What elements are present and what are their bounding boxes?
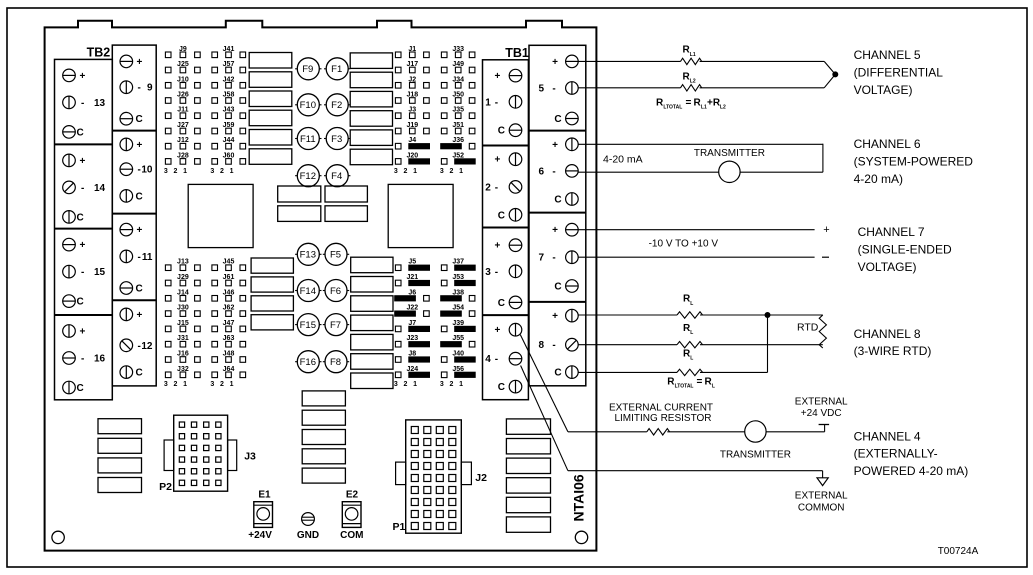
terminal E1 body (254, 502, 273, 528)
mounting hole bottom-left (52, 531, 64, 543)
svg-text:14: 14 (94, 183, 106, 194)
svg-text:+24V: +24V (248, 530, 272, 541)
bottom-left fuse holder pad 3 (251, 296, 293, 311)
svg-text:EXTERNAL: EXTERNAL (795, 397, 848, 408)
svg-text:F16: F16 (300, 357, 316, 368)
svg-text:-: - (552, 253, 555, 264)
svg-text:-: - (81, 267, 84, 278)
svg-text:F13: F13 (300, 250, 316, 261)
TB2 outer column divider 2 (55, 228, 113, 230)
svg-text:CHANNEL 6: CHANNEL 6 (854, 137, 921, 151)
svg-text:2: 2 (449, 168, 453, 175)
fuse F16 (295, 361, 297, 363)
svg-text:COMMON: COMMON (798, 502, 845, 513)
bottom-left pad 2 (98, 438, 142, 453)
svg-text:+: + (494, 155, 500, 166)
TB2 terminal 9 - screw and number (120, 81, 133, 94)
channel 7 - wire (578, 256, 814, 258)
svg-text:C: C (498, 382, 505, 393)
svg-text:4: 4 (485, 354, 491, 365)
top-right fuse holder pad 2 (350, 72, 392, 88)
connector P1/J2 left ear (396, 462, 406, 485)
svg-text:1: 1 (413, 381, 417, 388)
svg-text:COM: COM (340, 530, 363, 541)
terminal block TB1 right column outline (529, 45, 586, 386)
channel 7 - sign (822, 256, 829, 258)
svg-text:VOLTAGE): VOLTAGE) (858, 260, 917, 274)
svg-text:10: 10 (141, 165, 153, 176)
svg-text:4-20 mA: 4-20 mA (603, 153, 643, 165)
TB2 terminal 16 C screw (63, 381, 76, 394)
bottom-left fuse holder pad 2 (251, 277, 293, 292)
board outline NTAI06 with top tabs (45, 21, 597, 551)
top-right fuse holder pad 6 (350, 149, 392, 165)
svg-text:-: - (138, 165, 141, 176)
TB2 terminal 14 - screw and number (63, 181, 76, 194)
svg-text:F5: F5 (330, 250, 341, 261)
svg-text:F14: F14 (300, 286, 316, 297)
fuse F15 (295, 324, 297, 326)
TB1 left column divider 2 (483, 227, 529, 229)
fuse F1 (324, 68, 326, 70)
bottom-left pad 3 (98, 458, 142, 473)
top-right fuse holder pad 5 (350, 130, 392, 146)
svg-text:J3: J3 (244, 451, 256, 463)
svg-text:2: 2 (173, 381, 177, 388)
svg-text:POWERED 4-20 mA): POWERED 4-20 mA) (854, 464, 969, 478)
svg-text:+24 VDC: +24 VDC (801, 408, 842, 419)
bottom-middle pad 3 (302, 430, 345, 445)
svg-text:EXTERNAL: EXTERNAL (795, 491, 848, 502)
bottom-right fuse holder pad 2 (351, 277, 393, 293)
svg-text:T00724A: T00724A (938, 546, 979, 557)
RTD resistor (819, 315, 826, 348)
mounting hole bottom-right (575, 531, 587, 543)
svg-text:1: 1 (183, 168, 187, 175)
svg-text:1: 1 (230, 381, 234, 388)
svg-text:1: 1 (413, 168, 417, 175)
bottom-middle pad 2 (302, 410, 345, 425)
svg-text:-: - (81, 183, 84, 194)
TB2 terminal 16 + screw (63, 325, 76, 338)
channel 8 junction dot (765, 313, 770, 318)
TB2 terminal 12 - screw and number (120, 339, 133, 352)
svg-text:3: 3 (164, 168, 168, 175)
svg-text:TRANSMITTER: TRANSMITTER (694, 148, 765, 159)
svg-text:5: 5 (539, 84, 545, 95)
connector P2/J3 body and pins (174, 415, 228, 491)
TB2 terminal 14 + screw (63, 154, 76, 167)
svg-text:C: C (77, 297, 84, 308)
svg-text:+: + (80, 156, 86, 167)
fuse F7 (323, 324, 325, 326)
center pad row2 left (278, 206, 321, 222)
svg-text:-10 V TO +10 V: -10 V TO +10 V (649, 238, 719, 249)
svg-text:-: - (495, 97, 498, 108)
channel 4 + wire (568, 431, 647, 433)
svg-text:TRANSMITTER: TRANSMITTER (720, 450, 791, 461)
TB2 inner column divider 1 (112, 130, 156, 132)
top-left fuse holder pad 3 (249, 91, 292, 107)
svg-text:+: + (137, 57, 143, 68)
svg-text:RTD: RTD (797, 321, 819, 333)
TB2 terminal 15 C screw (63, 295, 76, 308)
svg-text:C: C (554, 282, 561, 293)
svg-text:-: - (552, 340, 555, 351)
resistor RL1 (681, 58, 702, 64)
center pad row2 right (325, 206, 367, 222)
bottom-right pad 5 (506, 497, 550, 512)
TB2 terminal 11 + screw (120, 223, 133, 236)
TB1 left column divider 3 (483, 314, 529, 316)
terminal block TB2 outer column outline (55, 59, 113, 399)
svg-text:F2: F2 (331, 100, 342, 111)
external common arrow (817, 478, 828, 486)
TB2 terminal 10 C screw (120, 190, 133, 203)
svg-text:F3: F3 (331, 134, 342, 145)
TB2 terminal 15 + screw (63, 238, 76, 251)
svg-text:TB2: TB2 (87, 46, 111, 60)
IC U1 outline (188, 184, 253, 247)
svg-text:F6: F6 (330, 286, 341, 297)
TB2 terminal 14 C screw (63, 211, 76, 224)
svg-text:-: - (138, 252, 141, 263)
TB2 terminal 13 + screw (63, 69, 76, 82)
svg-text:8: 8 (539, 340, 545, 351)
svg-text:3: 3 (440, 381, 444, 388)
svg-text:+: + (552, 311, 558, 322)
svg-text:C: C (554, 195, 561, 206)
channel 8 C wire (578, 371, 677, 373)
fuse F3 (324, 138, 326, 140)
top-left fuse holder pad 4 (249, 110, 292, 126)
svg-text:F11: F11 (300, 134, 316, 145)
svg-text:-: - (81, 98, 84, 109)
channel 8 - resistor RL (677, 342, 703, 348)
svg-text:L: L (690, 330, 693, 336)
svg-text:P2: P2 (159, 481, 172, 493)
svg-text:=: = (697, 376, 703, 387)
bottom-right pad 3 (506, 458, 550, 473)
svg-text:2: 2 (220, 168, 224, 175)
svg-text:C: C (498, 298, 505, 309)
svg-text:2: 2 (220, 381, 224, 388)
TB2 outer column divider 3 (55, 314, 113, 316)
svg-text:EXTERNAL CURRENT: EXTERNAL CURRENT (609, 403, 713, 414)
svg-text:CHANNEL 7: CHANNEL 7 (858, 225, 925, 239)
svg-text:VOLTAGE): VOLTAGE) (854, 83, 913, 97)
top-right fuse holder pad 1 (350, 53, 392, 69)
svg-text:15: 15 (94, 267, 106, 278)
TB2 terminal 9 + screw (120, 55, 133, 68)
fuse F10 (295, 104, 297, 106)
svg-text:L: L (712, 383, 715, 389)
svg-text:3: 3 (394, 168, 398, 175)
svg-text:L: L (690, 356, 693, 362)
svg-text:LIMITING RESISTOR: LIMITING RESISTOR (614, 413, 711, 424)
bottom-right pad 4 (506, 478, 550, 493)
top-left fuse holder pad 5 (249, 130, 292, 146)
svg-text:1: 1 (485, 97, 491, 108)
svg-text:C: C (77, 383, 84, 394)
GND screw (302, 513, 315, 526)
TB2 terminal 16 - screw and number (63, 352, 76, 365)
top-left fuse holder pad 2 (249, 72, 292, 88)
TB2 terminal 15 - screw and number (63, 265, 76, 278)
svg-text:+R: +R (707, 98, 721, 109)
svg-text:F8: F8 (330, 357, 341, 368)
svg-text:2: 2 (485, 182, 491, 193)
svg-text:+: + (137, 140, 143, 151)
svg-text:-: - (81, 354, 84, 365)
fuse F14 (295, 290, 297, 292)
bottom-right pad 1 (506, 419, 550, 434)
svg-text:L2: L2 (690, 79, 696, 85)
svg-text:C: C (554, 368, 561, 379)
bottom-middle pad 1 (302, 391, 345, 406)
bottom-left fuse holder pad 1 (251, 258, 293, 273)
bottom-left pad 1 (98, 419, 142, 434)
bottom-right fuse holder pad 1 (351, 257, 393, 273)
bottom-right fuse holder pad 4 (351, 315, 393, 331)
svg-text:-: - (138, 341, 141, 352)
transmitter circle channel 6 (719, 161, 740, 182)
svg-text:C: C (498, 126, 505, 137)
center pad row1 right (325, 186, 367, 202)
terminal E2 body (342, 502, 361, 528)
bottom-right pad 6 (506, 517, 550, 532)
svg-text:L1: L1 (690, 52, 696, 58)
connector P2/J3 left ear (164, 440, 174, 471)
top-left fuse holder pad 6 (249, 149, 292, 165)
terminal block TB1 left column outline (483, 60, 529, 400)
bottom-middle pad 4 (302, 449, 345, 464)
fuse F8 (323, 361, 325, 363)
svg-text:C: C (136, 368, 143, 379)
channel 5 - wire (578, 87, 680, 89)
svg-text:(EXTERNALLY-: (EXTERNALLY- (854, 447, 938, 461)
svg-text:+: + (552, 225, 558, 236)
top-left fuse holder pad 1 (249, 53, 292, 69)
fuse F2 (324, 104, 326, 106)
svg-text:CHANNEL 4: CHANNEL 4 (854, 429, 921, 443)
TB1 right column divider 3 (529, 301, 586, 303)
TB2 inner column divider 2 (112, 213, 156, 215)
svg-text:11: 11 (142, 252, 153, 263)
channel 4 - diagonal wire (521, 366, 568, 471)
resistor RL2 (681, 85, 702, 91)
fuse F9 (295, 68, 297, 70)
svg-text:+: + (80, 71, 86, 82)
svg-text:1: 1 (459, 381, 463, 388)
svg-text:-: - (138, 83, 141, 94)
svg-text:3: 3 (210, 381, 214, 388)
svg-text:13: 13 (94, 98, 106, 109)
terminal block TB2 inner column outline (112, 45, 156, 386)
svg-text:C: C (136, 284, 143, 295)
channel 8 + wire (578, 314, 677, 316)
channel 4 - wire (568, 470, 823, 472)
svg-text:LTOTAL: LTOTAL (675, 383, 694, 389)
svg-text:12: 12 (141, 341, 153, 352)
channel 6 + wire (578, 143, 823, 145)
fuse F6 (323, 290, 325, 292)
svg-text:9: 9 (147, 83, 153, 94)
IC U2 outline (388, 184, 453, 247)
connector P2/J3 right ear (228, 440, 237, 471)
svg-text:(SINGLE-ENDED: (SINGLE-ENDED (858, 243, 952, 257)
svg-text:F15: F15 (300, 320, 316, 331)
svg-text:3: 3 (210, 168, 214, 175)
channel 5 + wire (578, 60, 680, 62)
TB2 terminal 11 C screw (120, 282, 133, 295)
svg-text:F1: F1 (331, 64, 342, 75)
svg-text:L: L (690, 301, 693, 307)
external +24 VDC terminal bar (819, 424, 830, 426)
svg-text:6: 6 (539, 166, 545, 177)
svg-text:-: - (552, 84, 555, 95)
bottom-middle pad 5 (302, 468, 345, 483)
channel 4 wire to +24VDC (766, 431, 825, 433)
svg-text:GND: GND (297, 530, 319, 541)
TB1 right column divider 2 (529, 212, 586, 214)
svg-text:F9: F9 (302, 64, 313, 75)
center pad row1 left (278, 186, 321, 202)
svg-text:+: + (823, 224, 829, 236)
svg-text:+: + (494, 241, 500, 252)
svg-text:LTOTAL: LTOTAL (663, 105, 682, 111)
bottom-right pad 2 (506, 439, 550, 454)
svg-text:P1: P1 (393, 521, 406, 533)
TB2 terminal 12 C screw (120, 366, 133, 379)
svg-text:E2: E2 (346, 489, 359, 500)
svg-text:TB1: TB1 (505, 46, 529, 60)
bottom-left pad 4 (98, 478, 142, 493)
svg-text:CHANNEL 5: CHANNEL 5 (854, 48, 921, 62)
svg-text:3: 3 (485, 267, 491, 278)
svg-text:+: + (80, 240, 86, 251)
svg-text:-: - (552, 166, 555, 177)
TB2 terminal 11 - screw and number (120, 250, 133, 263)
svg-text:2: 2 (173, 168, 177, 175)
svg-text:+: + (552, 57, 558, 68)
TB2 terminal 9 C screw (120, 112, 133, 125)
TB1 left column divider 1 (483, 145, 529, 147)
fuse F13 (295, 253, 297, 255)
svg-text:3: 3 (394, 381, 398, 388)
svg-text:C: C (136, 191, 143, 202)
connector P1/J2 right ear (461, 462, 471, 485)
transmitter circle channel 4 (745, 421, 766, 442)
channel 5 junction dot (833, 72, 838, 77)
svg-text:CHANNEL 8: CHANNEL 8 (854, 327, 921, 341)
top-right fuse holder pad 4 (350, 111, 392, 127)
svg-text:4-20 mA): 4-20 mA) (854, 172, 903, 186)
TB1 right column divider 1 (529, 130, 586, 132)
channel 8 + resistor RL (677, 312, 703, 318)
svg-text:+: + (80, 327, 86, 338)
svg-text:(DIFFERENTIAL: (DIFFERENTIAL (854, 66, 944, 80)
svg-text:+: + (494, 71, 500, 82)
svg-text:-: - (495, 267, 498, 278)
TB2 inner column divider 3 (112, 299, 156, 301)
bottom-right fuse holder pad 7 (351, 373, 393, 389)
bottom-right fuse holder pad 5 (351, 334, 393, 350)
svg-text:F4: F4 (331, 171, 342, 182)
svg-text:L2: L2 (720, 105, 726, 111)
bottom-right fuse holder pad 3 (351, 296, 393, 312)
connector P1/J2 body and pins (406, 420, 462, 533)
channel 4 + diagonal wire (520, 335, 568, 432)
channel 8 C resistor RL (677, 369, 703, 375)
channel 6 - wire (578, 171, 719, 173)
svg-text:C: C (77, 127, 84, 138)
svg-text:+: + (137, 310, 143, 321)
top-right fuse holder pad 3 (350, 91, 392, 107)
svg-text:F7: F7 (330, 320, 341, 331)
fuse F12 (295, 175, 297, 177)
svg-text:3: 3 (164, 381, 168, 388)
svg-text:+: + (137, 225, 143, 236)
fuse F11 (295, 138, 297, 140)
svg-text:C: C (498, 210, 505, 221)
fuse F5 (323, 253, 325, 255)
TB2 terminal 13 C screw (63, 126, 76, 139)
TB2 terminal 10 - screw and number (120, 163, 133, 176)
svg-text:(SYSTEM-POWERED: (SYSTEM-POWERED (854, 155, 974, 169)
channel 5 converge wires (824, 61, 835, 74)
svg-text:C: C (136, 114, 143, 125)
TB2 terminal 13 - screw and number (63, 96, 76, 109)
svg-text:2: 2 (449, 381, 453, 388)
svg-text:(3-WIRE RTD): (3-WIRE RTD) (854, 344, 932, 358)
svg-text:+: + (552, 140, 558, 151)
svg-text:1: 1 (459, 168, 463, 175)
svg-text:1: 1 (183, 381, 187, 388)
svg-text:-: - (495, 182, 498, 193)
svg-text:3: 3 (440, 168, 444, 175)
fuse F4 (324, 175, 326, 177)
channel 7 + wire (578, 229, 814, 231)
TB2 terminal 12 + screw (120, 308, 133, 321)
svg-text:J2: J2 (475, 472, 487, 484)
svg-text:+: + (494, 325, 500, 336)
bottom-right fuse holder pad 6 (351, 354, 393, 370)
svg-text:F10: F10 (300, 100, 316, 111)
svg-text:C: C (77, 212, 84, 223)
svg-text:F12: F12 (300, 171, 316, 182)
svg-text:C: C (554, 114, 561, 125)
TB2 outer column divider 1 (55, 143, 113, 145)
TB2 terminal 10 + screw (120, 138, 133, 151)
svg-text:2: 2 (403, 168, 407, 175)
channel 8 - wire (578, 344, 677, 346)
bottom-left fuse holder pad 4 (251, 315, 293, 330)
external current limiting resistor (647, 429, 670, 435)
svg-text:-: - (495, 354, 498, 365)
svg-text:E1: E1 (258, 489, 271, 500)
svg-text:=: = (686, 98, 692, 109)
svg-text:NTAI06: NTAI06 (571, 474, 587, 521)
svg-text:7: 7 (539, 253, 545, 264)
svg-text:1: 1 (230, 168, 234, 175)
svg-text:2: 2 (403, 381, 407, 388)
svg-text:16: 16 (94, 354, 106, 365)
